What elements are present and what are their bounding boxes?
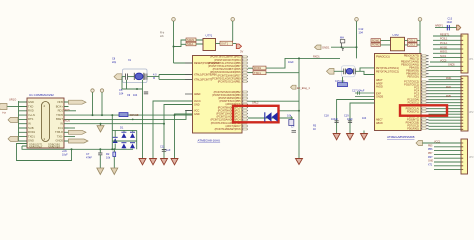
port arrow left mid bbox=[8, 117, 18, 122]
svg-text:GND5: GND5 bbox=[56, 139, 64, 143]
header JP2 bbox=[461, 76, 468, 131]
svg-text:VCC5: VCC5 bbox=[440, 59, 447, 62]
wire stubs U1 right pins bbox=[64, 102, 69, 141]
svg-text:JP1: JP1 bbox=[469, 57, 474, 61]
ground arrow maroon 3 bbox=[161, 159, 168, 165]
ground arrow maroon 2 bbox=[150, 159, 157, 165]
ground arrow tan R2 bbox=[111, 168, 118, 175]
svg-text:FC1: FC1 bbox=[58, 126, 64, 130]
wire U4 left pins bbox=[196, 40, 203, 44]
pin number boxes U2 right bbox=[243, 56, 247, 130]
wire U1 right row4 rail bbox=[69, 114, 120, 116]
svg-text:U1 COM5MAX232: U1 COM5MAX232 bbox=[29, 93, 54, 97]
net labels bottom right column bbox=[428, 145, 433, 166]
ground arrow maroon 5 bbox=[333, 134, 340, 140]
svg-text:1uF: 1uF bbox=[166, 148, 171, 152]
IC U2 left pin stubs bbox=[185, 63, 193, 114]
IC U1 inner capsule bbox=[42, 102, 50, 142]
svg-text:GND: GND bbox=[28, 100, 34, 104]
svg-text:EF_EGg_1: EF_EGg_1 bbox=[297, 86, 310, 90]
svg-text:MOSI1: MOSI1 bbox=[440, 46, 448, 49]
IC U4 regulator body bbox=[203, 39, 216, 51]
svg-text:GND: GND bbox=[194, 113, 200, 116]
resistor R3 on bus bbox=[289, 120, 294, 126]
svg-text:ROW1: ROW1 bbox=[372, 40, 380, 43]
port arrow right row8 bbox=[69, 130, 87, 134]
pin number boxes U3 right bbox=[422, 55, 426, 130]
diode D1 blue bbox=[113, 138, 118, 143]
IC U2 left pin names bbox=[194, 62, 220, 116]
svg-text:RESET1: RESET1 bbox=[440, 33, 450, 36]
svg-text:i-tx: i-tx bbox=[2, 111, 6, 115]
highlight box 1 red bbox=[233, 106, 279, 123]
port arrow crystal2 left bbox=[327, 69, 335, 75]
svg-text:SUB: SUB bbox=[28, 126, 34, 130]
power port VCC P1 bbox=[172, 18, 176, 22]
svg-text:10k: 10k bbox=[287, 114, 292, 118]
port arrow left lower bbox=[8, 136, 18, 141]
wires to header JP3 bbox=[423, 143, 462, 170]
svg-text:10uF: 10uF bbox=[288, 61, 294, 64]
wire U1 right row6 to ground bbox=[69, 124, 165, 126]
wire crystal1 to XTAL pins bbox=[147, 75, 193, 80]
wire TXD1 to right bbox=[266, 58, 299, 72]
wire U1 loopback left bbox=[17, 144, 72, 161]
port arrow right row10 bbox=[69, 139, 89, 143]
svg-text:AVDD: AVDD bbox=[376, 86, 383, 89]
svg-text:M: M bbox=[153, 77, 155, 80]
port arrow right row1 bbox=[69, 100, 87, 104]
svg-text:TXD-: TXD- bbox=[57, 134, 63, 138]
svg-text:AREF1: AREF1 bbox=[435, 25, 444, 28]
capacitor C9 bars bbox=[145, 74, 147, 80]
svg-text:MISO1: MISO1 bbox=[440, 51, 448, 54]
wire U1 right row7 bbox=[69, 127, 76, 129]
wire U1 right row9 bbox=[69, 136, 76, 138]
svg-text:10uF: 10uF bbox=[447, 21, 453, 24]
net label box TXD1 bbox=[253, 71, 266, 75]
wire crystal2 rail bbox=[334, 70, 344, 72]
wire branch P1 to label boxes bbox=[174, 40, 187, 47]
crystal2 enclosure bbox=[342, 66, 356, 77]
svg-text:UR1O: UR1O bbox=[9, 98, 16, 102]
junction dots power stems bbox=[92, 114, 94, 116]
IC U1 right pin names bbox=[55, 100, 64, 143]
svg-text:SDM1B: SDM1B bbox=[130, 113, 139, 117]
svg-text:(PCINT14/RESET)PC6: (PCINT14/RESET)PC6 bbox=[215, 128, 241, 131]
diode D4 blue bbox=[121, 144, 126, 149]
IC U3 ATMEGA8535 body bbox=[375, 54, 422, 131]
svg-text:PWADC2(1): PWADC2(1) bbox=[376, 56, 390, 59]
wire stubs left IC left pins bbox=[19, 102, 28, 141]
svg-text:PB?(XTAL2/TOSC2): PB?(XTAL2/TOSC2) bbox=[376, 70, 399, 73]
svg-text:JP3: JP3 bbox=[469, 155, 474, 159]
svg-text:C7: C7 bbox=[86, 152, 90, 156]
ground arrow tan C7 bbox=[97, 168, 104, 175]
wire crystal2 to XTAL pins bbox=[355, 68, 374, 75]
svg-text:RXD1: RXD1 bbox=[254, 66, 262, 70]
svg-text:474F: 474F bbox=[86, 156, 92, 160]
wire left input horizontal bbox=[7, 106, 19, 108]
crystal Y2 bbox=[346, 68, 352, 74]
svg-text:OUT1: OUT1 bbox=[221, 42, 229, 46]
svg-text:SDM1: SDM1 bbox=[187, 38, 195, 42]
wires U3 mid group to header2 bbox=[429, 77, 462, 130]
wire U2 INT pins to bus bbox=[248, 101, 299, 118]
svg-text:TXB-R: TXB-R bbox=[55, 130, 63, 134]
svg-text:SCK1: SCK1 bbox=[440, 55, 447, 58]
IC U3 left pin names bbox=[376, 56, 399, 126]
svg-text:VCC1: VCC1 bbox=[434, 140, 441, 143]
wire crystal1 ground rail bbox=[122, 77, 143, 89]
svg-text:R2: R2 bbox=[106, 152, 110, 156]
svg-text:GND: GND bbox=[428, 161, 433, 163]
wire U2 RXD out bbox=[248, 72, 253, 74]
svg-text:RXD1: RXD1 bbox=[28, 130, 36, 134]
power port VCC P6 bbox=[418, 18, 422, 22]
probe arrow blue 1 bbox=[266, 112, 272, 121]
svg-text:(PCINT1/OC1A)PB1: (PCINT1/OC1A)PB1 bbox=[218, 81, 241, 84]
svg-text:C12: C12 bbox=[359, 27, 364, 31]
resistor R1 blue block bbox=[119, 113, 128, 117]
svg-text:PB6: PB6 bbox=[428, 149, 433, 151]
capacitor C14 bars bbox=[344, 69, 346, 75]
ground arrow maroon 4 bbox=[171, 159, 178, 165]
svg-text:PB7: PB7 bbox=[428, 153, 433, 155]
port arrow GND left bbox=[315, 45, 322, 49]
diode D2 blue bbox=[121, 133, 126, 138]
IC U3 right pin names bbox=[401, 55, 420, 131]
ground arrow maroon 1 bbox=[139, 159, 146, 165]
svg-text:GND: GND bbox=[194, 103, 200, 106]
wire diode top rail bbox=[112, 130, 136, 137]
svg-text:COL1: COL1 bbox=[409, 40, 416, 43]
svg-text:PB7(SCK): PB7(SCK) bbox=[407, 76, 419, 79]
svg-text:RST: RST bbox=[428, 157, 433, 159]
power port VCC P2 bbox=[231, 18, 235, 22]
port arrow crystal1 left bbox=[114, 74, 122, 80]
junction dots bottom rail bbox=[99, 148, 101, 150]
wire OUT to port bbox=[233, 43, 237, 45]
svg-text:3V: 3V bbox=[240, 50, 243, 54]
svg-text:C18: C18 bbox=[324, 115, 329, 118]
crystal Y1 bbox=[135, 73, 143, 80]
svg-text:GND5: GND5 bbox=[448, 64, 455, 67]
wire diode bottom drops bbox=[115, 144, 133, 150]
svg-text:ROW2: ROW2 bbox=[372, 44, 380, 47]
net label box OUT1 bbox=[220, 41, 233, 45]
svg-text:JP2: JP2 bbox=[469, 110, 474, 114]
net label boxes U5 left ROW1 bbox=[371, 39, 381, 42]
net label boxes U5 left ROW2 bbox=[371, 43, 381, 46]
wire vertical net bus right of U2 bbox=[298, 58, 300, 158]
svg-text:PA01: PA01 bbox=[446, 77, 452, 80]
wire vertical node bus bbox=[111, 115, 113, 149]
svg-text:TXD: TXD bbox=[28, 104, 33, 108]
svg-text:TXD1: TXD1 bbox=[254, 71, 261, 75]
svg-text:104: 104 bbox=[119, 92, 124, 96]
svg-text:BOX+: BOX+ bbox=[56, 104, 64, 108]
net label box SDM1 bbox=[186, 38, 196, 42]
wire COL boxes to vertical bbox=[417, 41, 420, 45]
svg-text:GNDS: GNDS bbox=[376, 96, 384, 99]
net labels header2 wires bbox=[446, 77, 452, 98]
wire rail to U2 bbox=[128, 114, 193, 116]
ground arrow tan mid bbox=[97, 126, 104, 132]
wire cap to crystal bbox=[128, 76, 135, 78]
wire crystal1 rail bbox=[122, 76, 126, 78]
header JP3 bottom bbox=[461, 139, 468, 174]
ground arrow maroon bus bbox=[296, 159, 303, 165]
highlight box 2 red bbox=[400, 105, 447, 115]
svg-text:ATMEGA8535SMD8: ATMEGA8535SMD8 bbox=[387, 135, 415, 139]
svg-text:1K: 1K bbox=[313, 128, 316, 131]
svg-text:104: 104 bbox=[133, 94, 138, 97]
wires U3 top group to header1 bbox=[429, 36, 462, 71]
svg-text:srb: srb bbox=[160, 34, 164, 38]
net labels header1 wires bbox=[440, 33, 455, 66]
svg-text:10k: 10k bbox=[106, 156, 111, 160]
IC U5 body bbox=[391, 37, 405, 51]
svg-text:SDB(2)R1: SDB(2)R1 bbox=[48, 145, 61, 149]
svg-text:10uF: 10uF bbox=[62, 154, 68, 157]
wire left vertical bus bbox=[18, 101, 20, 142]
wire GND rail bbox=[331, 46, 357, 48]
port arrow far-left RXD bbox=[0, 104, 7, 110]
wire U1 right row5 to U2 bbox=[69, 111, 193, 120]
capacitor C8 bars bbox=[126, 74, 128, 80]
svg-text:MH: MH bbox=[340, 37, 344, 40]
svg-text:XTAL2(PCINT7): XTAL2(PCINT7) bbox=[194, 78, 212, 81]
svg-text:RTS: RTS bbox=[28, 117, 34, 121]
svg-text:XT1: XT1 bbox=[428, 164, 433, 166]
port arrow red 3V bbox=[236, 44, 241, 49]
net label box RXD1 bbox=[253, 66, 266, 70]
IC U3 right pin stubs bbox=[421, 56, 429, 129]
crystal1 enclosure bbox=[123, 69, 148, 83]
svg-text:ATMEGA8-16AU: ATMEGA8-16AU bbox=[198, 139, 221, 143]
svg-text:PD0(RXD): PD0(RXD) bbox=[407, 128, 419, 131]
wire diode mid rail bbox=[112, 130, 136, 149]
wire bottom long rail bbox=[22, 146, 133, 149]
svg-text:V+LN: V+LN bbox=[28, 113, 35, 117]
diode D5 blue bbox=[130, 144, 135, 149]
svg-text:C17 104uF: C17 104uF bbox=[352, 90, 365, 93]
svg-text:104: 104 bbox=[359, 31, 364, 35]
wire RESET to U2 bbox=[174, 62, 193, 64]
svg-text:PD6(ICP1): PD6(ICP1) bbox=[407, 111, 419, 114]
wire U4 right pin bbox=[216, 43, 221, 45]
svg-text:GND: GND bbox=[28, 139, 34, 143]
wire U3 AREF cap drops bbox=[337, 100, 375, 134]
svg-text:PC0L1: PC0L1 bbox=[440, 38, 448, 41]
IC U1 RS232 transceiver body bbox=[27, 98, 64, 148]
svg-text:U7?1: U7?1 bbox=[206, 34, 213, 38]
wire U2 TXD out bbox=[248, 67, 253, 69]
svg-text:PA51: PA51 bbox=[446, 95, 452, 98]
net label box SDL1 bbox=[186, 42, 196, 46]
IC U2 right pin names bbox=[208, 56, 241, 131]
power port VCC P5 bbox=[355, 18, 359, 22]
wire U5 left pins bbox=[381, 41, 391, 45]
port arrow right AREF bbox=[457, 25, 461, 30]
svg-text:RXD: RXD bbox=[28, 109, 34, 113]
svg-text:IN: IN bbox=[28, 122, 31, 126]
port arrow EF_EGg bbox=[291, 85, 297, 89]
header JP1 bbox=[461, 34, 468, 73]
diode D3 blue bbox=[130, 133, 135, 138]
svg-text:D1: D1 bbox=[120, 126, 124, 130]
svg-text:PC1L1: PC1L1 bbox=[440, 42, 448, 45]
capacitor C9b bars on gnd drop bbox=[144, 92, 148, 94]
wire U1 right row3 bbox=[69, 110, 77, 112]
svg-text:R-b: R-b bbox=[160, 31, 165, 35]
svg-text:GND1: GND1 bbox=[322, 46, 330, 50]
probe arrow blue 2 bbox=[272, 112, 278, 121]
svg-text:22p: 22p bbox=[112, 61, 117, 64]
ground arrow maroon 7 bbox=[361, 134, 368, 140]
svg-text:C?: C? bbox=[291, 125, 295, 129]
svg-text:PB5: PB5 bbox=[428, 145, 433, 147]
svg-text:TXD5: TXD5 bbox=[56, 113, 63, 117]
port arrow bottom right bbox=[416, 141, 423, 146]
wire top rail to crystal2 bbox=[299, 57, 340, 59]
wire top right port bbox=[435, 27, 457, 29]
capacitor C15 bars bbox=[353, 69, 355, 75]
IC U1 left pin names bbox=[28, 100, 36, 143]
net label box COL1 bbox=[408, 39, 418, 42]
svg-text:TXD1: TXD1 bbox=[28, 134, 35, 138]
svg-text:COL2: COL2 bbox=[409, 44, 416, 47]
wire U2 VCC left drop bbox=[153, 101, 193, 158]
wire crystal gnd drop bbox=[142, 89, 144, 158]
wire U5 right pins bbox=[405, 41, 408, 45]
svg-text:104: 104 bbox=[362, 117, 367, 120]
svg-text:U P2: U P2 bbox=[393, 33, 400, 37]
IC U2 ATMEGA8 body bbox=[193, 56, 243, 134]
net label box COL2 bbox=[408, 43, 418, 46]
ground arrow maroon 6 bbox=[347, 134, 354, 140]
IC U2 right pin stubs bbox=[242, 57, 248, 129]
svg-text:PA21: PA21 bbox=[446, 86, 452, 89]
capacitor C13 symbol bbox=[447, 25, 449, 30]
svg-text:C11: C11 bbox=[160, 145, 165, 149]
svg-text:ABC8: ABC8 bbox=[376, 122, 383, 125]
svg-text:SDB1(2)F1: SDB1(2)F1 bbox=[29, 145, 43, 149]
power port VCC P3 bbox=[91, 89, 94, 92]
svg-text:AREF: AREF bbox=[194, 93, 201, 96]
svg-text:SDL1: SDL1 bbox=[187, 42, 194, 46]
svg-text:VIN5: VIN5 bbox=[57, 100, 63, 104]
power port VCC P4 bbox=[100, 89, 103, 92]
